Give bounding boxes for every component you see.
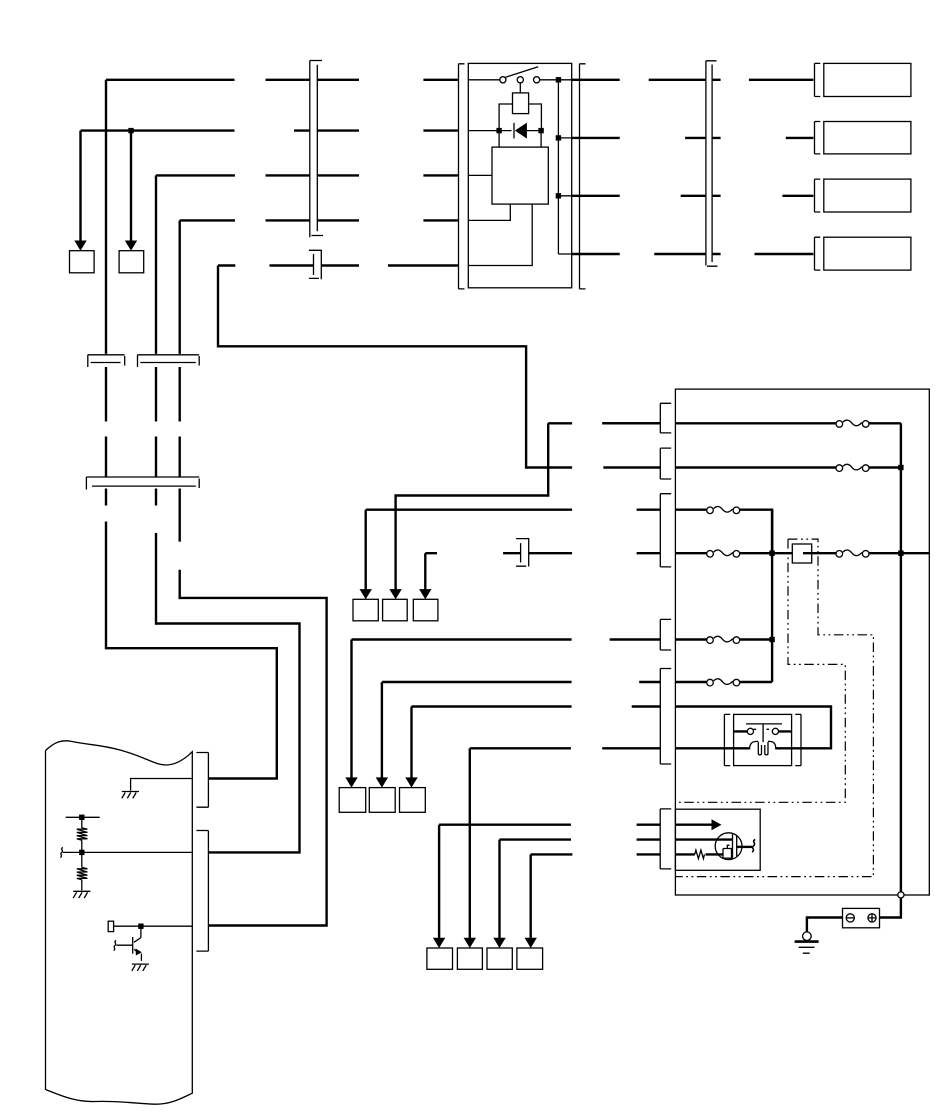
box B2 [824,122,911,154]
fuse row3 wire [675,510,772,554]
relay coil side taps [499,104,541,131]
box K3 [487,948,512,969]
junction diode right [538,128,543,133]
squiggle drain [752,840,755,853]
relay plunger [746,724,782,742]
arrow into box K4 [525,938,537,948]
wire row4 mid segment [266,219,360,221]
wire fuse row1 left end [602,422,660,424]
connector C3 (wires B,C) [138,355,200,367]
transistor base wire [116,944,132,946]
wire B lower [155,489,157,625]
ground transistor [132,964,149,971]
relay internal bus [558,80,571,254]
wire C L-path to ECU pin3 [180,598,327,926]
wire row4 left segment [180,219,235,221]
bracket box B1 [815,63,821,96]
ECU bracket pins2-3 [196,831,208,952]
box B3 [824,179,911,212]
box U1 [353,599,378,621]
wire row2 to relay box [423,129,458,131]
wires diode to module [499,131,541,148]
relay contact dashes [754,728,772,730]
box L1 [339,788,366,813]
box A2 [119,251,144,273]
ECU bracket pin1 [196,753,208,808]
relay compartment bracket right [795,714,801,765]
bracket fuse rows6-8 [660,669,671,765]
connector C1 tall (top-left) [310,61,323,238]
wire C lower [178,489,180,600]
wire stubs after C5 [712,80,720,254]
ground terminal circle [803,932,812,941]
wire to box B4 [755,253,814,255]
mosfet gate structure [723,845,732,858]
wire row5 feed down to fuse row2 [218,266,572,468]
fuse F6 [707,636,740,643]
box L3 [400,788,426,813]
wire mosfet row1 feed [439,825,660,940]
connector C5 tall (right) [706,61,718,266]
bracket box B2 [815,122,821,154]
bracket fuse rows3-4 [660,494,671,567]
ECU outline [46,741,193,1104]
connector C2 (wire A) [88,355,125,367]
wire row5 to module bottom [468,204,532,265]
mosfet row2 wire [675,838,732,840]
switch contact a [500,77,506,83]
wire row2 mid segment [294,129,359,131]
switch contact c [534,77,540,83]
ground divider [73,891,90,898]
chassis ground bars [795,940,819,943]
wire row3 to relay box [423,174,458,176]
wire C mid [178,367,180,477]
bracket mosfet rows [660,809,671,869]
box K2 [457,948,482,969]
transistor collector rail [114,925,193,927]
switch contact b [517,77,523,83]
box A1 [70,251,95,273]
junction row2 [128,128,133,133]
wire C vertical top [178,220,180,354]
wire B L-path to ECU pin2 [156,624,300,853]
wire row5 to relay box [388,264,458,266]
junction divider mid [79,850,84,855]
dash-dot shield filter left [675,539,845,802]
fuse row5 wire [675,638,772,640]
relay contact b [772,728,778,734]
inline connector row f4 [516,539,529,567]
arrow into box K1 [433,938,445,948]
arrow into box A2 [125,241,137,251]
switch wire in [468,79,499,81]
fuse F7 [707,679,740,686]
fuse row2 wire [675,466,901,468]
relay module box [492,147,548,204]
wire relay out row3 [572,195,620,197]
wire row1 left segment [106,79,235,81]
arrow into box L2 [376,777,388,787]
bracket fuse row1 [660,403,671,433]
wire bus to connector box [880,898,901,918]
wire mosfet row2 feed [500,840,661,940]
connector box [843,908,880,927]
relay contact a [747,728,753,734]
wire relay out row4 [572,253,620,255]
box B1 [824,63,911,96]
wire to box B2 [786,137,814,139]
wire fuse row2 resume [603,466,660,468]
wire relay out row2 [572,137,620,139]
divider top rail [66,816,100,818]
arrow into box L1 [345,777,357,787]
wire fuse row6 feed [382,682,660,779]
wire row2 left segment [81,129,235,131]
box L2 [369,788,395,813]
dash-dot shield filter right [675,539,873,877]
squiggle base [114,941,117,951]
wire row3 into module [468,174,492,176]
fuse F4 [707,550,740,557]
switch wire out [540,79,572,81]
wire A lower [105,489,107,650]
junction collector [138,924,143,929]
wire relay compartment top [675,707,831,749]
mosfet body [715,833,742,860]
wire relay coil feed [470,748,661,939]
transistor Q1 [133,926,142,961]
fuse box exit terminal [898,892,904,898]
fuse box right bus [900,423,902,891]
wire relay coil row [675,747,749,749]
transistor base pullup box [108,921,113,931]
mosfet drain wire [737,846,752,848]
arrow into box U2 [389,589,401,599]
fuse F1 [836,420,869,427]
wire B vertical top [155,175,157,354]
arrow right [712,819,722,830]
wire relay out row1 [572,79,620,81]
noise filter box [792,544,811,563]
arrow into box A1 [74,241,86,251]
box K1 [427,948,453,969]
wire row5 mid segment [270,264,314,266]
fuse F2 [836,464,869,471]
wire A L-path to ECU pin1 [106,648,277,778]
wire right row3 resume [681,195,706,197]
ECU pin1 ground wire [131,779,193,791]
arrow into box U3 [419,589,431,599]
wire B mid [155,367,157,477]
mosfet row1 wire with arrow [675,824,712,826]
gate resistor [695,850,705,859]
relay assembly box [468,63,571,287]
relay assembly right bracket [580,64,586,289]
squiggle mid rail [60,848,63,858]
junction divider top [79,815,84,820]
fuse box left bus [771,510,773,682]
wire row5 right of inline connector [322,264,359,266]
relay coil right wire [776,747,792,749]
wire row4 to relay box [423,219,458,221]
junction relay row1 [556,77,561,82]
relay contact wires [734,730,792,732]
bracket box B4 [815,237,821,270]
fuse row1 wire [675,422,901,424]
box B4 [824,237,911,270]
arrow into box K2 [464,938,476,948]
relay coil drop [519,83,521,93]
wire relay compartment feed [412,707,661,780]
junction left bus row5 [769,637,774,642]
wire drop to box A1 [79,131,81,241]
bracket fuse row5 [660,619,671,650]
relay compartment box [734,714,792,765]
wire to box B1 [749,79,814,81]
bracket fuse row2 [660,448,671,479]
mosfet row3 wire [675,853,694,855]
ground pin1 [122,792,139,799]
fuse F5 [836,550,869,557]
mosfet compartment box [675,809,760,870]
box U2 [383,599,408,621]
resistor R1 [77,817,88,852]
junction left bus row4 [769,551,774,556]
wire row5 left segment [218,264,235,266]
box K4 [517,948,543,969]
diode row wire [468,130,541,132]
wire right row2 resume [685,137,706,139]
terminal glyph left [846,914,855,922]
inline connector row5 [309,250,321,279]
wire row3 left segment [156,174,235,176]
wire drop to box A2 [130,131,132,241]
wire fuse row5 feed [352,640,661,780]
arrow into box K3 [493,938,505,948]
arrow into box L3 [405,777,417,787]
relay compartment bracket left [724,714,730,765]
relay coil [750,741,776,754]
junction right bus row4 [898,551,903,556]
gate wire [706,853,724,855]
resistor R2 [77,852,88,890]
wire row3 mid segment [266,174,360,176]
junction bus row3 [556,193,561,198]
wire right row1 resume [649,79,706,81]
bracket box B3 [815,179,821,212]
junction right bus row2 [898,465,903,470]
divider mid rail [63,851,192,853]
relay assembly left bracket [459,64,465,289]
wire A vertical top [105,80,107,354]
wire row1 to relay box [423,79,458,81]
diode D1 [514,123,527,139]
fuse box outline [675,389,929,895]
fuse row4 wire [675,552,929,554]
mosfet bars [733,833,737,859]
wire row4 to module bottom [468,204,510,220]
wire row1 mid segment [266,79,360,81]
fuse F3 [707,506,740,513]
wire fuse row4 feed [425,553,660,591]
terminal glyph right [868,913,877,922]
arrow into box U1 [360,589,372,599]
box U3 [413,599,438,621]
wire right row4 resume [654,253,705,255]
wire fuse row1 feed [396,423,661,591]
relay coil box [513,93,529,114]
junction bus row2 [556,135,561,140]
wire to box B3 [782,195,813,197]
wire fuse row3 feed [366,510,661,591]
connector C4 (wires A,B,C) [86,477,199,490]
switch blade [506,67,539,78]
wire mosfet row3 feed [531,854,661,939]
junction diode left [496,128,501,133]
fuse row6 wire [675,681,772,683]
wire A mid [105,367,107,477]
wire connector to ground [807,918,843,932]
